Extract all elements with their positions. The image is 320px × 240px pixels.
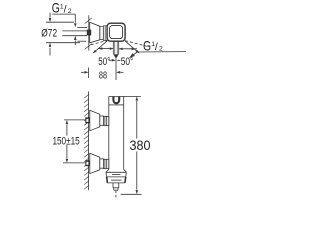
svg-text:380: 380 [130,138,151,153]
svg-text:50°: 50° [98,56,110,68]
svg-text:50°: 50° [121,56,134,68]
svg-text:/: / [64,3,67,15]
svg-text:150±15: 150±15 [52,136,79,148]
svg-text:G: G [143,38,151,53]
svg-text:Ø72: Ø72 [41,27,57,39]
svg-text:88: 88 [99,69,107,81]
svg-text:/: / [155,41,158,53]
svg-text:G: G [52,1,60,16]
